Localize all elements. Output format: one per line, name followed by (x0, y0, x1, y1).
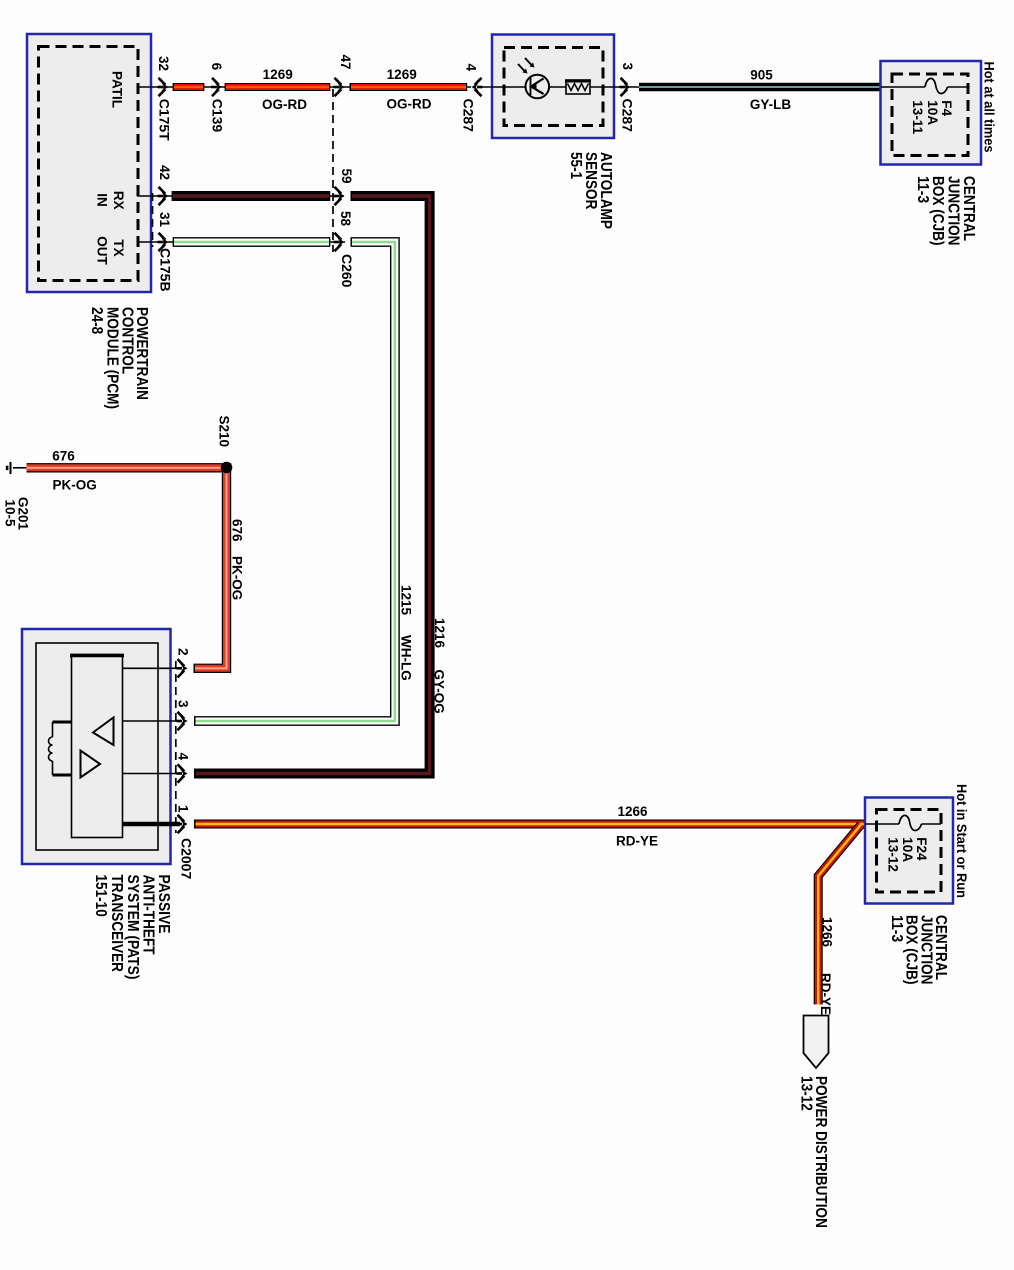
wire 1266 RD-YE branch (818, 825, 861, 1005)
wire 1215 WH-LG segment A (173, 237, 331, 247)
svg-text:1: 1 (176, 805, 191, 813)
PCM pin name RX IN (95, 191, 126, 210)
wire 1216 GY-OG segment B (194, 196, 430, 774)
svg-text:1266: 1266 (617, 804, 648, 819)
svg-text:32: 32 (156, 56, 171, 71)
wire 1269 OG-RD segment B (225, 83, 331, 91)
wire TX OUT thin lead (137, 241, 345, 243)
svg-text:OG-RD: OG-RD (262, 97, 307, 112)
svg-text:55-1: 55-1 (567, 152, 584, 179)
PATS pin 4 lead (123, 773, 180, 775)
svg-text:JUNCTION: JUNCTION (945, 176, 962, 246)
wire 676 PK-OG (27, 468, 227, 669)
connector C139 arrow (211, 78, 222, 96)
ground label G201 10-5 (3, 497, 31, 531)
power distribution arrow (804, 1016, 829, 1069)
connector pin 1 arrow (177, 815, 188, 833)
svg-text:59: 59 (339, 169, 354, 184)
svg-text:905: 905 (750, 68, 773, 83)
wire 1269 OG-RD segment C (350, 83, 468, 91)
PATS pin 2 lead (123, 667, 180, 669)
svg-text:1266: 1266 (820, 917, 835, 948)
svg-text:31: 31 (157, 212, 172, 228)
autolamp sensor box (492, 35, 614, 139)
svg-text:OG-RD: OG-RD (387, 97, 432, 112)
svg-text:42: 42 (157, 165, 172, 180)
svg-text:PATIL: PATIL (109, 71, 124, 108)
transceiver triangle up (93, 718, 114, 746)
connector C175 dashed line (152, 193, 154, 247)
fuse F24 symbol (865, 815, 941, 830)
fuse label F4 10A 13-11 (910, 100, 954, 134)
splice S210 (221, 462, 233, 474)
svg-text:13-12: 13-12 (886, 837, 901, 872)
svg-text:676: 676 (52, 449, 75, 464)
svg-text:676: 676 (230, 519, 245, 542)
svg-text:C175B: C175B (158, 248, 174, 292)
svg-text:WH-LG: WH-LG (399, 635, 414, 681)
transceiver coil (49, 722, 72, 775)
svg-text:3: 3 (176, 700, 191, 708)
transceiver inner rect (70, 655, 124, 838)
fuse label F24 10A 13-12 (886, 837, 929, 872)
svg-text:4: 4 (176, 753, 191, 761)
svg-text:PK-OG: PK-OG (230, 556, 245, 600)
PATS pin 1 lead (123, 822, 181, 827)
svg-text:10A: 10A (925, 100, 940, 125)
svg-text:3: 3 (620, 63, 635, 71)
svg-text:PK-OG: PK-OG (52, 478, 96, 493)
svg-text:C175T: C175T (157, 99, 173, 141)
svg-text:RD-YE: RD-YE (616, 834, 658, 849)
fuse F4 symbol (881, 78, 968, 93)
svg-text:58: 58 (338, 211, 353, 227)
connector pin 4 arrow C287 (472, 78, 483, 96)
connector C2007 dashed line (175, 661, 177, 833)
svg-text:ANTI-THEFT: ANTI-THEFT (140, 875, 157, 955)
svg-text:2: 2 (176, 648, 191, 656)
connector pin 4 arrow (177, 764, 188, 782)
connector pin 3 arrow (177, 712, 188, 730)
svg-text:47: 47 (338, 55, 353, 70)
svg-text:Hot in Start or Run: Hot in Start or Run (954, 784, 969, 898)
PATS transceiver box (22, 629, 171, 864)
connector pin 32 arrow (158, 78, 169, 96)
connector pin 58 arrow (334, 233, 345, 251)
svg-text:10A: 10A (900, 837, 915, 862)
svg-text:1269: 1269 (263, 67, 293, 82)
svg-text:13-12: 13-12 (798, 1076, 815, 1111)
wire RX IN thin lead (137, 195, 344, 197)
svg-text:GY-OG: GY-OG (432, 670, 447, 714)
svg-text:1216: 1216 (432, 618, 447, 649)
label POWER DISTRIBUTION 13-12 (798, 1076, 830, 1228)
svg-text:TX: TX (111, 239, 126, 256)
svg-text:1269: 1269 (387, 67, 417, 82)
svg-text:OUT: OUT (95, 236, 110, 265)
photo sensor symbol (518, 58, 549, 98)
resistor symbol (565, 80, 591, 94)
svg-text:F24: F24 (914, 837, 929, 861)
label CENTRAL JUNCTION BOX (CJB) 11-3 top (914, 176, 977, 246)
label CENTRAL JUNCTION BOX (CJB) 11-3 bottom (888, 915, 949, 985)
svg-text:TRANSCEIVER: TRANSCEIVER (108, 875, 125, 973)
wire PATIL thin lead (137, 86, 471, 88)
svg-text:C139: C139 (210, 99, 226, 133)
PATS pin 3 lead (123, 720, 180, 722)
svg-text:SYSTEM (PATS): SYSTEM (PATS) (124, 875, 141, 980)
svg-text:6: 6 (209, 63, 224, 71)
svg-text:24-8: 24-8 (88, 307, 105, 334)
wire 1216 GY-OG segment A (172, 191, 331, 201)
connector pin 2 arrow (177, 659, 188, 677)
svg-text:RX: RX (111, 191, 126, 210)
ground G201 symbol (6, 462, 27, 474)
autolamp internal wire (481, 86, 639, 88)
svg-text:S210: S210 (217, 416, 232, 448)
svg-text:13-11: 13-11 (910, 100, 925, 134)
svg-text:151-10: 151-10 (92, 875, 109, 917)
wire 1269 OG-RD segment A (173, 83, 205, 91)
svg-text:C260: C260 (339, 254, 355, 288)
svg-text:1215: 1215 (399, 585, 414, 616)
PCM pin name TX OUT (95, 236, 126, 265)
svg-text:C287: C287 (620, 99, 636, 133)
label PASSIVE ANTI-THEFT SYSTEM (PATS) TRANSCEIVER 151-10 (92, 875, 172, 980)
label POWERTRAIN CONTROL MODULE (PCM) 24-8 (88, 307, 150, 409)
svg-text:10-5: 10-5 (3, 500, 18, 528)
connector pin 47 arrow (334, 78, 345, 96)
svg-text:GY-LB: GY-LB (750, 97, 792, 112)
svg-text:C287: C287 (461, 99, 477, 133)
svg-text:Hot at all times: Hot at all times (982, 62, 997, 153)
connector C260 dashed line (332, 89, 334, 252)
svg-text:4: 4 (464, 64, 479, 72)
connector pin 42 arrow (158, 187, 169, 205)
connector pin 31 arrow (158, 233, 169, 251)
wire 905 GY-LB (639, 83, 881, 91)
connector pin 59 arrow (334, 187, 345, 205)
svg-text:IN: IN (95, 193, 110, 207)
transceiver triangle down (81, 751, 101, 778)
svg-text:F4: F4 (939, 100, 954, 116)
wire 1266 RD-YE horizontal (194, 820, 865, 829)
svg-text:RD-YE: RD-YE (818, 973, 833, 1015)
svg-text:11-3: 11-3 (914, 176, 931, 203)
central junction box top (881, 61, 982, 165)
central junction box bottom (865, 798, 953, 904)
svg-text:11-3: 11-3 (888, 915, 905, 942)
svg-text:C2007: C2007 (179, 838, 195, 879)
connector pin 3 arrow C287 (620, 78, 631, 96)
label AUTOLAMP SENSOR 55-1 (567, 152, 614, 229)
wire 1215 WH-LG segment B (194, 242, 395, 721)
PCM module box (27, 34, 151, 292)
